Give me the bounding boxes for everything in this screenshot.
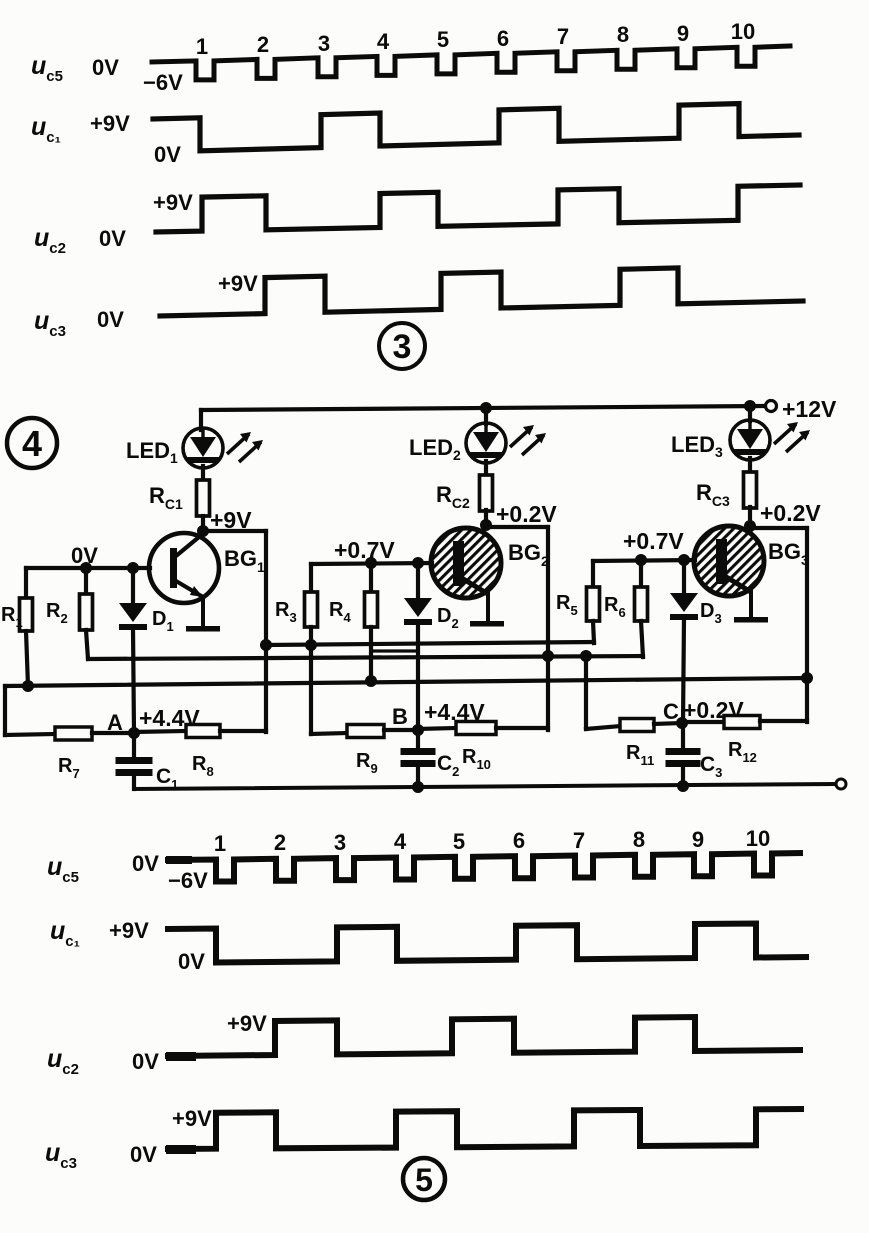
wire collector3 to coupling vertical	[750, 526, 807, 530]
svg-text:6: 6	[513, 828, 525, 853]
wire rowB left arm to R9	[311, 733, 348, 734]
wire R8 to coupling vertical 1	[220, 729, 266, 733]
svg-text:A: A	[107, 710, 123, 735]
wire R12 to coupling vertical 3	[760, 719, 807, 723]
wire RC2 to collector node	[484, 510, 488, 525]
wire R2 top	[84, 568, 88, 594]
wire rowC left to R11	[586, 726, 621, 729]
coupling vertical stage1 (to node row A)	[264, 531, 268, 732]
resistor R6	[635, 587, 648, 621]
svg-text:0V: 0V	[154, 142, 181, 167]
wire R11 to node C	[654, 723, 682, 724]
resistor R7	[55, 727, 92, 740]
bottom rail open terminal	[836, 779, 846, 789]
wire collector1 to coupling vertical	[203, 529, 266, 533]
diode D2	[404, 598, 432, 617]
node A	[128, 727, 140, 739]
wire R2 to rail2	[86, 630, 88, 659]
svg-text:8: 8	[617, 22, 629, 47]
figure number 3 (circled)	[379, 323, 425, 369]
figure number 5 (circled)	[403, 1158, 445, 1200]
diode D1	[119, 603, 147, 622]
+12V top supply rail	[201, 406, 765, 410]
svg-text:+9V: +9V	[153, 190, 193, 215]
junction base1 / D1	[127, 562, 139, 574]
svg-text:+9V: +9V	[109, 918, 149, 943]
resistor R12	[724, 716, 760, 729]
svg-text:0V: 0V	[99, 226, 126, 251]
capacitor C3	[666, 748, 701, 755]
wire C2 to bottom rail	[416, 767, 420, 787]
svg-text:+9V: +9V	[90, 111, 130, 136]
resistor R4	[365, 592, 378, 627]
ground BG1	[186, 626, 220, 632]
junction R3 / rail1	[305, 639, 317, 651]
svg-text:4: 4	[22, 423, 42, 464]
wire R7 to node A	[92, 731, 134, 735]
svg-text:10: 10	[746, 826, 770, 851]
waveform u_C1 trace (fig.5)	[168, 924, 806, 963]
wire node C to C3	[681, 723, 685, 748]
wire R5 top	[591, 561, 595, 587]
capacitor C2	[401, 748, 436, 755]
wire node A to C1	[132, 733, 136, 757]
wire C3 to bottom rail	[681, 767, 685, 786]
junction R1 / rail3	[22, 680, 34, 692]
node row A left arm	[3, 686, 7, 735]
svg-text:3: 3	[334, 830, 346, 855]
junction base3 / D3	[678, 554, 690, 566]
ground BG3	[734, 617, 768, 623]
node collector BG2	[480, 519, 492, 531]
jumper R4 to D2	[371, 649, 418, 652]
resistor R2	[80, 594, 93, 630]
LED3 light arrows	[774, 424, 796, 444]
wire D3 to node C	[683, 618, 684, 723]
waveform u_C2 trace (fig.3)	[156, 185, 800, 232]
LED LED3	[730, 420, 770, 460]
svg-text:3: 3	[318, 31, 330, 56]
resistor RC2	[480, 475, 493, 511]
rail 2 (stage2 collector coupling)	[88, 656, 643, 659]
wire R3 to node row B (through rail1)	[309, 627, 313, 734]
junction bottom rail / C3	[677, 780, 689, 792]
node row C left arm	[584, 656, 588, 729]
junction coupling1 / rail1	[260, 639, 272, 651]
junction top rail / LED3	[744, 400, 756, 412]
wire R6 to rail2 corner	[641, 621, 643, 657]
wire D1 top	[131, 568, 135, 603]
svg-text:2: 2	[257, 32, 269, 57]
wire R6 top	[639, 560, 643, 587]
wire R3 top	[309, 564, 313, 592]
ground BG2	[470, 621, 504, 627]
heavy pen start of u_C2 baseline (fig.5)	[166, 1052, 196, 1061]
clock pulse numbers 1-10 (fig.5)	[214, 826, 770, 856]
junction base2 / D2	[412, 557, 424, 569]
node collector BG1	[197, 525, 209, 537]
wire R1 to rail3	[26, 631, 28, 686]
svg-text:10: 10	[731, 19, 755, 44]
junction coupling3 / rail3	[801, 672, 813, 684]
wire D2 top	[416, 563, 420, 598]
svg-text:5: 5	[453, 829, 465, 854]
waveform u_C5 clock trace (fig.5)	[168, 853, 800, 882]
base wire stage1	[26, 566, 150, 570]
resistor R3	[305, 592, 318, 627]
svg-text:+9V: +9V	[227, 1011, 267, 1036]
svg-text:+12V: +12V	[782, 396, 837, 422]
transistor BG2 (saturated, hatched)	[431, 528, 501, 598]
wire node B to C2	[416, 730, 420, 748]
diode D3	[670, 593, 698, 612]
wire D1 to node A	[133, 628, 134, 733]
svg-text:1: 1	[196, 34, 208, 59]
wire LED3 to RC3	[748, 458, 752, 473]
svg-text:9: 9	[677, 21, 689, 46]
wire LED3 to top rail	[748, 406, 752, 421]
waveform u_C1 trace (fig.3)	[153, 104, 799, 151]
svg-text:7: 7	[573, 828, 585, 853]
capacitor C1	[116, 757, 153, 764]
svg-text:0V: 0V	[178, 949, 205, 974]
wire collector2 to coupling vertical	[486, 525, 548, 529]
svg-text:−6V: −6V	[168, 868, 208, 893]
svg-text:2: 2	[274, 830, 286, 855]
wire D3 top	[682, 560, 686, 593]
node C	[676, 717, 688, 729]
transistor BG3 (saturated, hatched)	[694, 526, 764, 596]
junction base3 / R6	[635, 554, 647, 566]
svg-text:6: 6	[497, 26, 509, 51]
resistor R1	[20, 598, 33, 631]
node B	[412, 724, 424, 736]
LED1 light arrows	[227, 434, 249, 454]
resistor R8	[186, 725, 220, 738]
wire R4 top	[369, 563, 373, 592]
base wire stage3	[593, 560, 695, 561]
LED LED2	[466, 423, 506, 463]
svg-text:1: 1	[214, 831, 226, 856]
junction bottom rail / C2	[412, 781, 424, 793]
svg-text:7: 7	[557, 24, 569, 49]
svg-text:0V: 0V	[97, 307, 124, 332]
svg-text:9: 9	[692, 827, 704, 852]
waveform u_C2 trace (fig.5)	[168, 1017, 800, 1056]
wire node B to R10	[418, 728, 456, 729]
wire D2 to node B	[416, 623, 420, 730]
junction R4 / rail3	[365, 675, 377, 687]
node collector BG3	[744, 520, 756, 532]
heavy pen start of u_C5 baseline (fig.5)	[166, 856, 192, 864]
resistor R5	[587, 587, 600, 621]
wire LED2 to top rail	[484, 408, 488, 424]
resistor R11	[620, 719, 654, 732]
wire node A to R8	[134, 731, 186, 732]
wire RC1 to collector node	[201, 516, 205, 531]
svg-text:5: 5	[437, 27, 449, 52]
svg-text:+0.7V: +0.7V	[334, 537, 395, 563]
LED2 light arrows	[510, 427, 532, 447]
wire rowA left to R7	[5, 734, 56, 735]
rail 3 (stage3 collector coupling, full width)	[5, 678, 807, 686]
wire R10 to coupling vertical 2	[496, 726, 548, 730]
base wire stage2	[311, 563, 432, 564]
resistor R9	[347, 725, 384, 738]
svg-text:5: 5	[415, 1162, 433, 1198]
figure number 4 (circled)	[7, 418, 57, 468]
BG1 emitter wire	[201, 597, 205, 625]
svg-text:4: 4	[394, 829, 407, 854]
bottom common rail	[134, 784, 836, 789]
wire LED2 to RC2	[484, 461, 488, 476]
heavy pen start of u_C3 baseline (fig.5)	[166, 1145, 196, 1154]
svg-text:0V: 0V	[132, 1049, 159, 1074]
waveform u_C3 trace (fig.3)	[160, 268, 803, 316]
BG3 emitter wire	[749, 592, 753, 617]
wire LED1 to top rail	[199, 410, 203, 430]
svg-text:+0.2V: +0.2V	[496, 501, 557, 527]
rail 1 (stage1 collector coupling)	[266, 642, 594, 645]
junction coupling2 / rail2	[542, 650, 554, 662]
wire node C to R12	[682, 720, 724, 724]
BG2 emitter wire	[486, 594, 490, 621]
svg-text:C: C	[663, 699, 679, 724]
waveform u_C5 clock trace (fig.3)	[152, 46, 790, 80]
junction rail2 / node row C arm	[580, 650, 592, 662]
svg-text:+9V: +9V	[218, 271, 258, 296]
coupling vertical stage3 (to node row C)	[805, 528, 809, 722]
junction base1 / R2	[80, 562, 92, 574]
svg-text:0V: 0V	[92, 55, 119, 80]
transistor BG1	[149, 533, 219, 603]
svg-text:+0.7V: +0.7V	[623, 528, 684, 554]
svg-text:8: 8	[633, 827, 645, 852]
waveform u_C3 trace (fig.5)	[168, 1109, 801, 1149]
resistor R10	[456, 722, 496, 735]
junction base2 / R4	[365, 557, 377, 569]
svg-text:4: 4	[377, 29, 390, 54]
+12V open terminal	[766, 401, 777, 412]
coupling vertical stage2 (to node row B)	[546, 527, 550, 730]
svg-text:0V: 0V	[130, 1142, 157, 1167]
wire RC3 to collector node	[748, 507, 752, 526]
LED LED1	[183, 428, 223, 468]
resistor RC3	[744, 472, 757, 508]
svg-text:+9V: +9V	[172, 1106, 212, 1131]
wire LED1 to RC1	[201, 466, 205, 481]
clock pulse numbers 1-10 (fig.3)	[196, 19, 755, 59]
svg-text:−6V: −6V	[143, 70, 183, 95]
svg-text:B: B	[392, 704, 408, 729]
wire C1 to bottom rail	[132, 776, 136, 789]
resistor RC1	[197, 480, 210, 516]
junction top rail / LED2	[480, 402, 492, 414]
svg-text:3: 3	[393, 328, 412, 366]
wire R4 to rail3	[369, 627, 373, 681]
svg-text:+0.2V: +0.2V	[760, 500, 821, 526]
svg-text:0V: 0V	[132, 851, 159, 876]
wire R1 top	[24, 568, 28, 598]
wire R9 to node B	[384, 728, 418, 732]
wire R5 to rail1 corner	[593, 621, 594, 643]
